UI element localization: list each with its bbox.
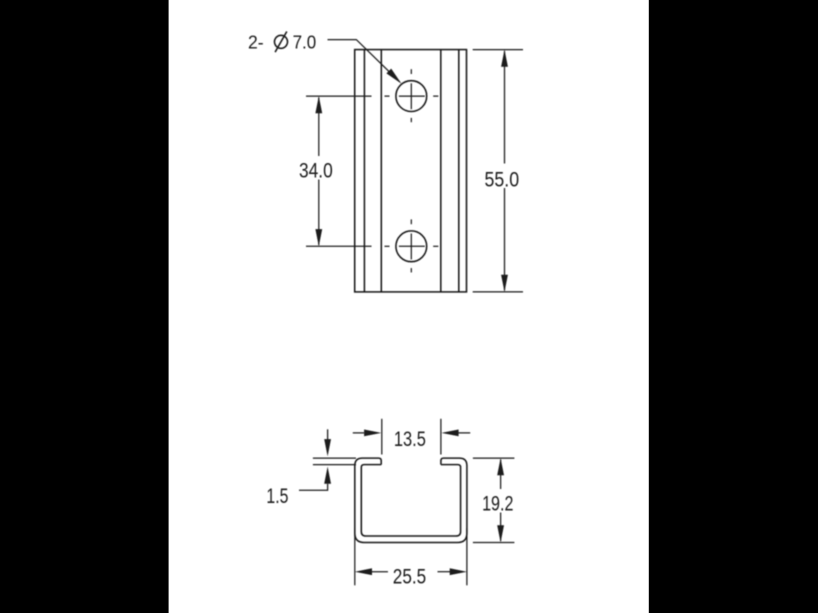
profile inner contour: [361, 465, 460, 536]
dimension 1.5 extension lines (lip surfaces extended): [313, 458, 356, 465]
dimension 19.2 extension lines: [473, 458, 515, 542]
dimension 19.2 arrowheads: [497, 458, 504, 542]
part outline rectangle: [355, 50, 467, 292]
dimension 25.5 dimension lines: [372, 571, 451, 573]
dimension 13.5 dimension lines: [353, 432, 470, 434]
hole H2 centerline vertical: [410, 219, 412, 272]
leader arrowhead: [386, 69, 401, 84]
hole H2 centerline horizontal: [385, 245, 439, 247]
right lip end face: [440, 460, 442, 465]
dimension 34.0 dimension line: [318, 98, 320, 246]
svg-text:2-: 2-: [248, 32, 264, 53]
svg-text:19.2: 19.2: [482, 493, 513, 516]
dimension 25.5 arrowheads: [355, 568, 467, 575]
bend line right inner: [440, 50, 442, 292]
hole H2 (bottom): [396, 231, 427, 262]
bend line left outer: [363, 50, 365, 292]
svg-text:1.5: 1.5: [266, 485, 288, 508]
svg-text:55.0: 55.0: [485, 168, 520, 191]
leader line for hole callout: [328, 40, 400, 82]
dimension 34.0 extension lines: [306, 96, 372, 246]
dimension 19.2 dimension line: [500, 460, 502, 542]
dimension 55.0 arrowheads: [501, 50, 508, 292]
white drawing panel: [169, 0, 649, 613]
dimension 1.5 upper arrow (pointing down): [327, 429, 329, 441]
left lip end face: [380, 460, 382, 465]
svg-text:34.0: 34.0: [299, 160, 333, 183]
dimension 1.5 lower arrow (pointing up) with leader to text: [299, 484, 328, 491]
dimension 13.5 extension lines: [382, 419, 441, 455]
profile outer contour: [355, 458, 467, 542]
dimension 55.0 dimension line: [504, 51, 506, 291]
hole H1 centerline horizontal: [385, 95, 439, 97]
dimension 13.5 arrowheads: [364, 430, 459, 437]
hole H1 (top): [396, 81, 427, 112]
dimension 34.0 arrowheads: [315, 96, 322, 246]
diameter symbol (phi) of hole callout: [275, 32, 288, 53]
bend line right outer: [458, 50, 460, 292]
dimension 25.5 extension lines: [355, 528, 467, 585]
svg-text:7.0: 7.0: [293, 32, 317, 53]
hole H1 centerline vertical: [410, 69, 412, 122]
bend line left inner: [380, 50, 382, 292]
dimension 55.0 extension lines: [473, 50, 523, 292]
svg-text:25.5: 25.5: [393, 565, 426, 588]
svg-text:13.5: 13.5: [394, 428, 426, 451]
